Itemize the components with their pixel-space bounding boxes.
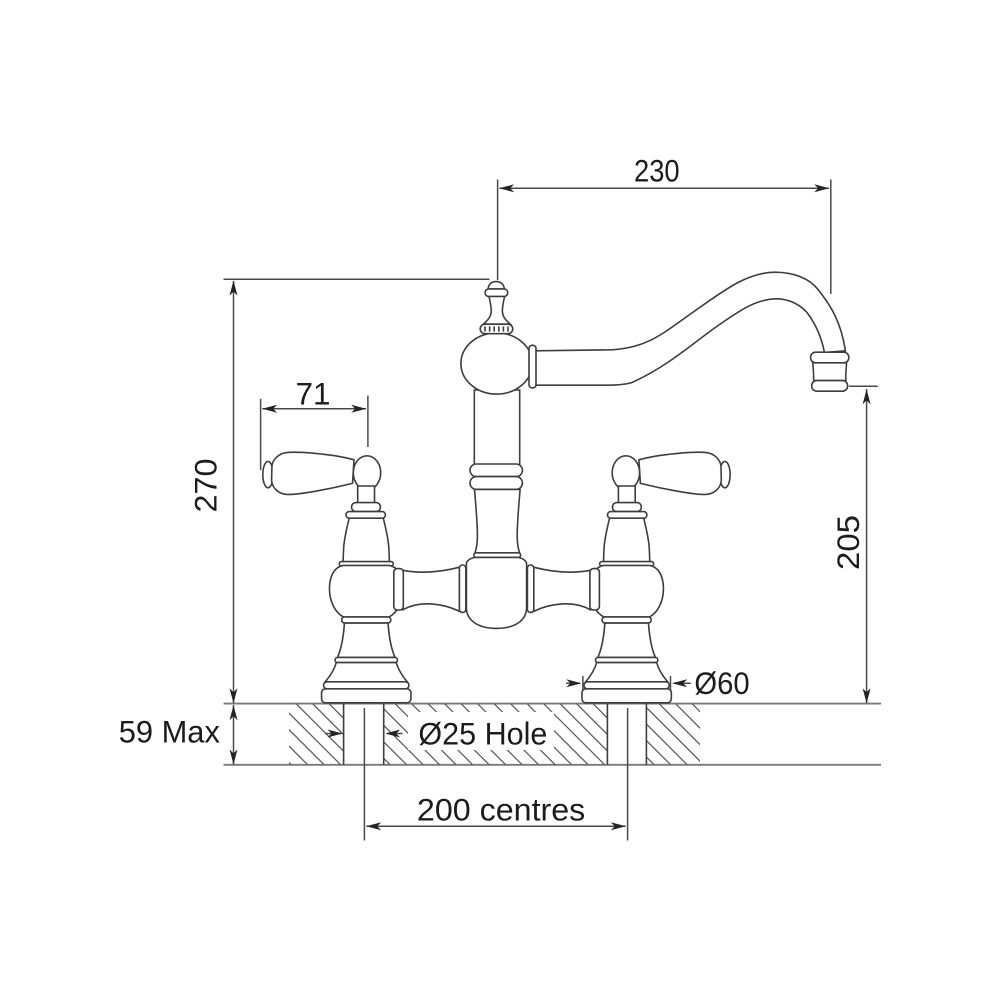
spout tip collar top bead bbox=[811, 352, 849, 363]
dimension Ø60 tick right bbox=[670, 676, 672, 697]
dimension 205 extension line top bbox=[849, 385, 878, 387]
bridge arm right centre-side flange bbox=[527, 565, 533, 612]
ball joint bbox=[461, 333, 532, 394]
left handle base lip bbox=[346, 512, 385, 519]
right handle end button bbox=[720, 461, 730, 487]
dimension 71 extension line right bbox=[367, 396, 369, 448]
left handle pivot ball bbox=[353, 456, 380, 490]
right valve base bead bbox=[595, 657, 657, 662]
dimension 230 extension line right bbox=[830, 180, 832, 295]
left valve shoulder bead bbox=[339, 562, 393, 566]
central column upper section bbox=[474, 390, 519, 465]
bridge arm left centre-side flange bbox=[459, 565, 465, 612]
dimension 200 centres extension line left bbox=[363, 708, 365, 841]
finial knurled ring bbox=[480, 324, 513, 334]
dimension 270 extension line top bbox=[224, 278, 490, 280]
right valve skirt bbox=[598, 623, 656, 657]
dimension 71 extension line left bbox=[260, 399, 262, 470]
finial neck bbox=[483, 297, 510, 325]
svg-text:Ø60: Ø60 bbox=[694, 665, 749, 701]
right handle ceramic lever bbox=[639, 452, 721, 494]
spout tip collar bottom bead bbox=[812, 381, 848, 392]
central column lower section bbox=[475, 489, 521, 553]
svg-text:200 centres: 200 centres bbox=[417, 792, 585, 828]
left valve ring bead bbox=[342, 617, 391, 623]
deck section hatching bbox=[230, 704, 770, 765]
dimension 270 line bbox=[233, 281, 235, 703]
right tailpiece pipe bbox=[607, 704, 646, 765]
right valve base step bead bbox=[584, 682, 669, 689]
right handle base bead bbox=[613, 503, 642, 512]
left valve bell bbox=[329, 565, 403, 617]
spout flange bbox=[529, 345, 536, 388]
svg-text:71: 71 bbox=[296, 376, 331, 412]
dimension 71 line bbox=[262, 408, 366, 410]
left valve plinth bbox=[322, 689, 411, 703]
central column ring bead 1 bbox=[470, 464, 522, 477]
finial dome bbox=[488, 282, 504, 289]
dimension Ø60 arrows bbox=[566, 682, 580, 684]
right handle pivot ball bbox=[612, 456, 639, 490]
finial collar bbox=[485, 289, 508, 297]
svg-text:205: 205 bbox=[830, 515, 866, 570]
right valve plinth bbox=[582, 689, 671, 703]
bridge arm right bbox=[534, 567, 591, 611]
dimension Ø25 Hole label bbox=[408, 712, 554, 750]
svg-text:59 Max: 59 Max bbox=[119, 714, 220, 750]
svg-text:Ø25 Hole: Ø25 Hole bbox=[418, 716, 547, 752]
dimension 230 extension line left bbox=[497, 180, 499, 281]
spout tube bbox=[534, 272, 845, 385]
left handle stem bbox=[358, 486, 375, 504]
right handle stem bbox=[618, 486, 635, 504]
dimension 200 centres extension line right bbox=[627, 708, 629, 841]
right valve shoulder bead bbox=[600, 562, 654, 566]
right valve bell bbox=[590, 565, 664, 617]
left valve vase neck bbox=[343, 518, 389, 563]
dimension 200 centres line bbox=[366, 825, 625, 827]
dimension 230 line bbox=[500, 187, 830, 189]
spout tip collar body bbox=[813, 363, 847, 381]
left tailpiece pipe bbox=[344, 704, 384, 765]
right valve base flare bbox=[586, 663, 668, 682]
right valve ring bead bbox=[602, 617, 651, 623]
svg-text:230: 230 bbox=[634, 153, 680, 189]
central column collar bead bbox=[474, 553, 521, 558]
left valve skirt bbox=[337, 623, 395, 657]
countertop deck bottom line bbox=[224, 764, 882, 766]
dimension Ø60 tick left bbox=[582, 676, 584, 697]
right valve vase neck bbox=[604, 518, 650, 563]
left valve base bead bbox=[335, 657, 397, 662]
bridge arm left valve-side flange bbox=[394, 569, 404, 610]
svg-text:270: 270 bbox=[188, 459, 224, 513]
left handle ceramic lever bbox=[272, 452, 354, 494]
right handle base lip bbox=[608, 512, 647, 519]
dimension Ø25 arrows bbox=[325, 733, 341, 735]
bridge centre body bbox=[466, 557, 526, 628]
left handle end button bbox=[263, 461, 273, 487]
countertop deck top line bbox=[224, 703, 882, 705]
bridge arm right valve-side flange bbox=[590, 569, 600, 610]
central column ring bead 2 bbox=[470, 477, 522, 490]
bridge arm left bbox=[403, 567, 460, 611]
left valve base flare bbox=[325, 663, 407, 682]
dimension 59 Max line bbox=[233, 705, 235, 764]
left handle base bead bbox=[352, 503, 381, 512]
left valve base step bead bbox=[324, 682, 409, 689]
dimension 205 line bbox=[866, 389, 868, 703]
